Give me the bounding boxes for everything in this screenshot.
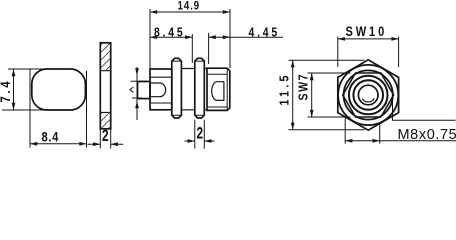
- side view tube slot: [212, 82, 224, 101]
- end view socket circle inner: [353, 80, 383, 110]
- bottom dimension extension lines: [345, 117, 380, 144]
- svg-text:7.4: 7.4: [0, 79, 13, 103]
- svg-text:8.4: 8.4: [42, 129, 59, 144]
- side view tube chamfer boundary line: [226, 68, 228, 110]
- tongue small dimension extension lines: [131, 81, 147, 98]
- bottom dimension line: [345, 140, 456, 142]
- dimension SW10 line: [338, 38, 399, 40]
- end view socket circle outer: [349, 76, 388, 115]
- svg-text:11.5: 11.5: [276, 72, 291, 105]
- tongue small dimension line: [136, 67, 138, 120]
- svg-text:4.45: 4.45: [249, 25, 280, 39]
- dimension 7.4 extension lines: [2, 69, 64, 110]
- side view threaded tube body: [207, 68, 230, 110]
- dimension 2 (gasket) extension lines: [100, 129, 110, 149]
- dimension 4.45 line: [209, 36, 283, 38]
- tongue small dimension mark: [130, 87, 134, 92]
- dimension 8.4 extension lines: [30, 69, 87, 148]
- dimension SW10 extension lines: [338, 37, 399, 68]
- end view center circle: [358, 85, 378, 105]
- dimension 11.5 line: [292, 60, 294, 130]
- dimension 7.4 arrows: [12, 69, 16, 76]
- dimension 14.9 extension lines: [150, 9, 230, 69]
- end view inner hex socket SW7: [343, 73, 394, 117]
- gasket hatch top: [101, 43, 110, 70]
- gasket outline: [100, 43, 110, 129]
- svg-text:8.45: 8.45: [154, 25, 185, 39]
- dimension SW7 line: [311, 73, 313, 117]
- svg-text:14.9: 14.9: [178, 0, 200, 13]
- dimension 8.4 arrows: [30, 142, 37, 146]
- side view thread shaft lines: [181, 69, 207, 110]
- dimension 2 (gasket) line and arrows: [88, 143, 124, 145]
- dimension 8.45 right extension line: [191, 34, 193, 63]
- side view bore lines: [150, 77, 172, 103]
- dimension 8.4 line: [30, 143, 87, 145]
- front view head D-shape outline: [32, 69, 86, 110]
- svg-text:2: 2: [102, 127, 109, 146]
- gasket hatch bottom: [101, 113, 110, 128]
- dimension SW7 extension lines: [308, 73, 351, 117]
- end view pin arc: [362, 99, 374, 103]
- dimension 8.45 line: [150, 36, 192, 38]
- dimension 4.45 extension line: [208, 33, 210, 64]
- dimension 11.5 extension lines: [289, 60, 365, 130]
- side view disc chamfer boundary lines: [172, 61, 205, 115]
- dimension 14.9 line: [150, 11, 230, 13]
- side view tube thread lines: [208, 74, 227, 107]
- thread leader line M8x0.75: [393, 100, 456, 120]
- svg-text:SW7: SW7: [295, 73, 310, 101]
- svg-text:SW10: SW10: [346, 24, 388, 39]
- end view outer hexagon: [338, 60, 399, 130]
- side view body: [150, 69, 172, 110]
- end view thread circle: [344, 70, 393, 119]
- side view tongue: [138, 82, 151, 99]
- svg-text:2: 2: [197, 125, 204, 144]
- dimension 2 (side) line and arrows: [185, 140, 215, 142]
- side view D-slot: [150, 83, 166, 97]
- end view chamfer circle: [338, 65, 398, 125]
- side view flange disc 1: [172, 58, 182, 118]
- dimension 7.4 line: [13, 69, 15, 110]
- side view flange disc 2: [195, 58, 205, 118]
- dimension 2 (side) extension lines: [195, 120, 205, 149]
- tongue small dimension arrows: [135, 68, 139, 75]
- gasket hole lines: [100, 71, 110, 113]
